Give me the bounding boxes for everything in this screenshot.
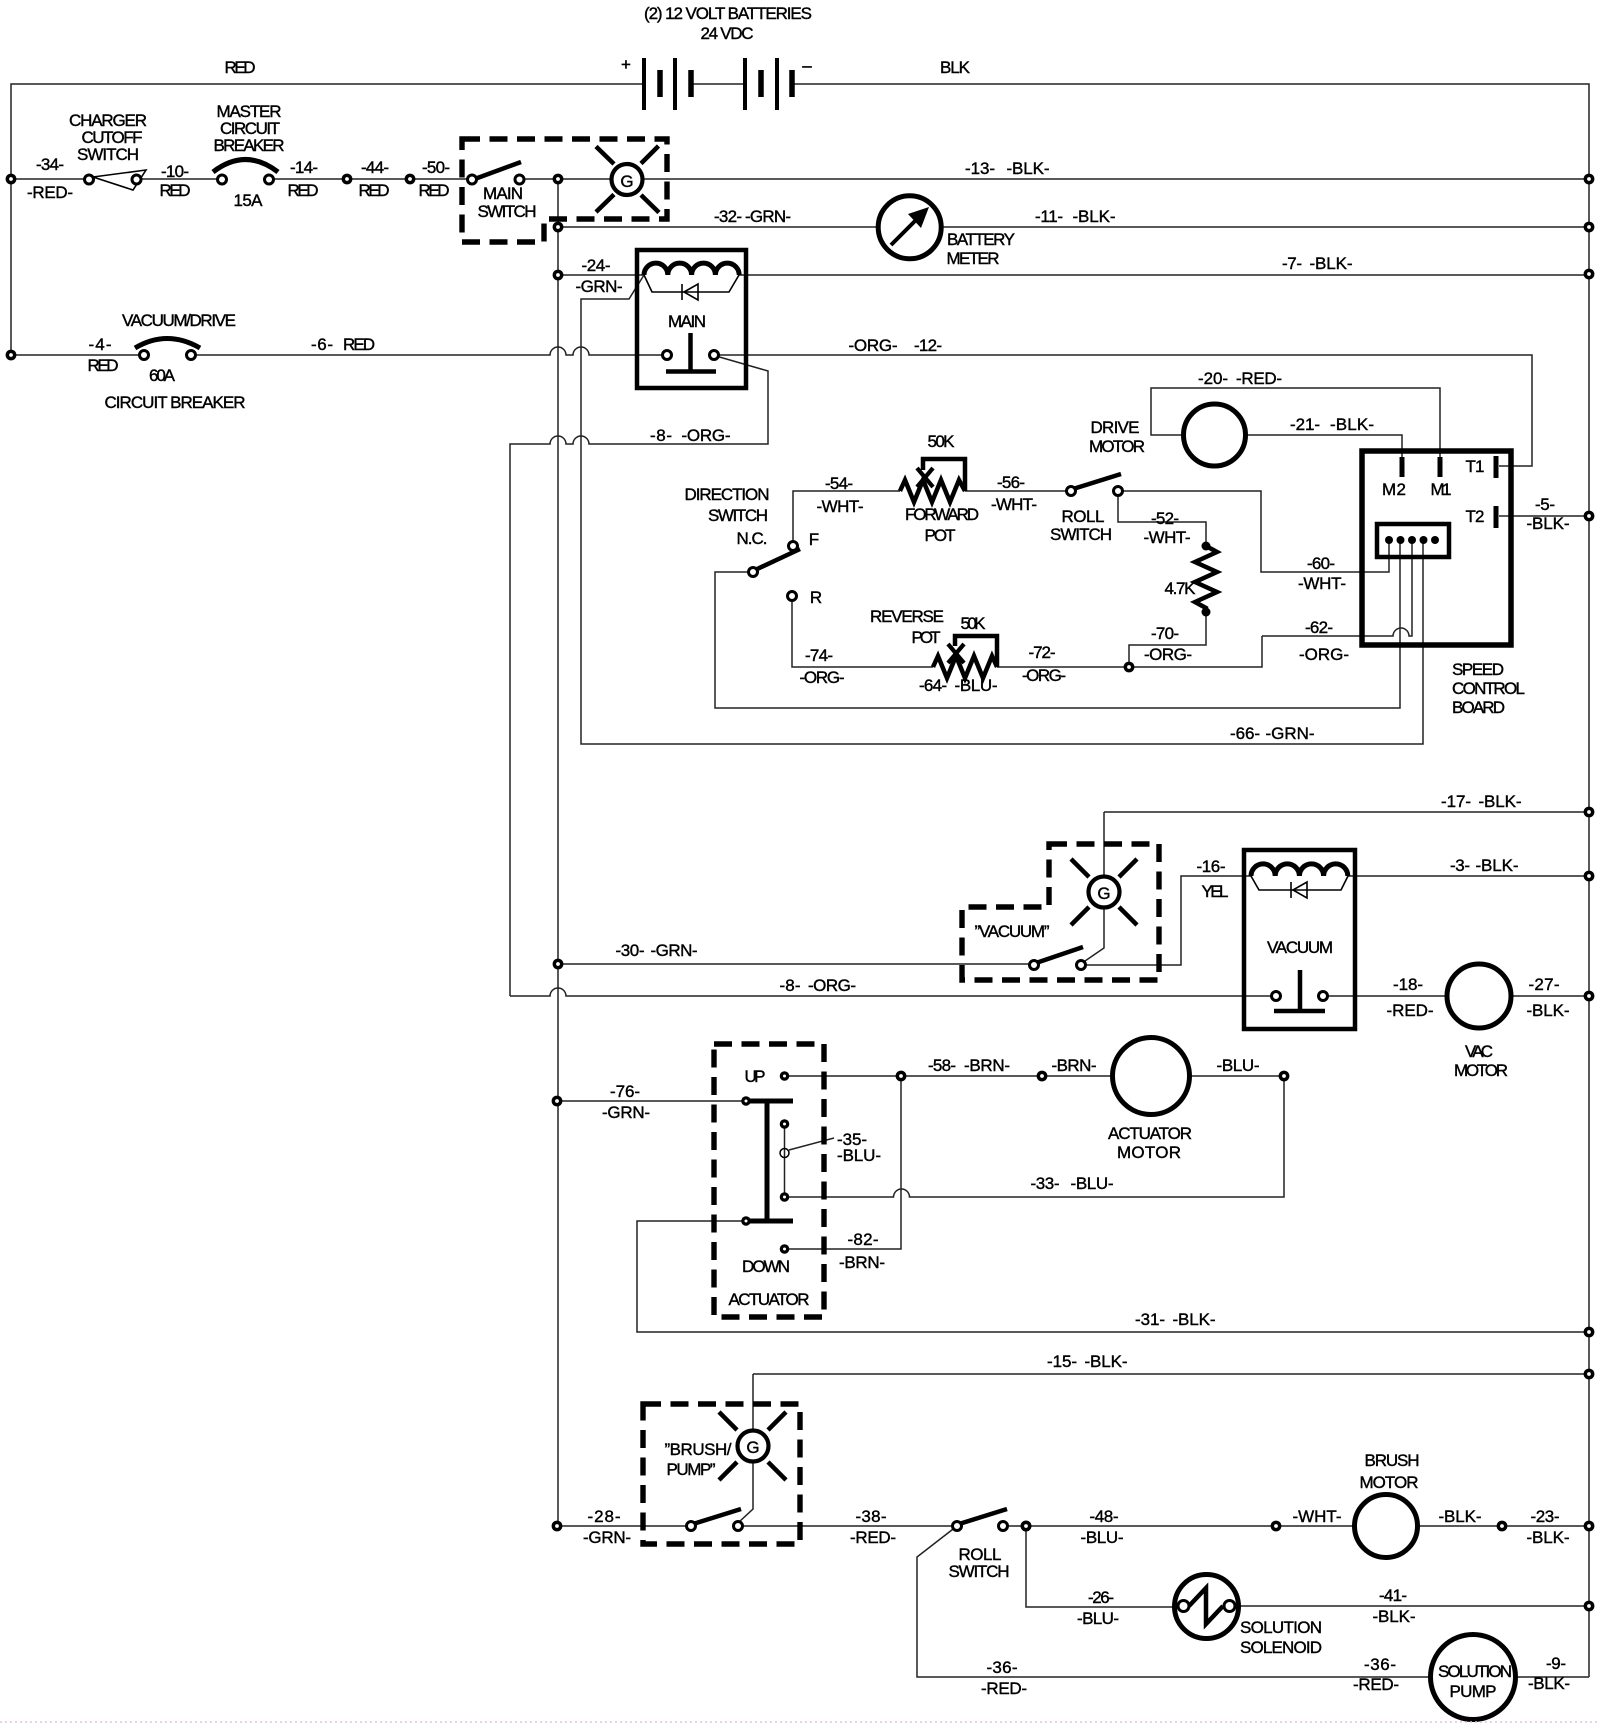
svg-text:SWITCH: SWITCH (478, 202, 537, 221)
svg-text:-41-: -41- (1379, 1586, 1407, 1605)
indicator lamp G main switch (596, 146, 659, 213)
svg-text:-5-: -5- (1535, 495, 1555, 514)
svg-text:-50-: -50- (422, 158, 450, 177)
svg-text:-56-: -56- (997, 473, 1025, 492)
roll switch S8 lever and contacts (953, 1509, 1008, 1531)
svg-text:-13-: -13- (965, 159, 995, 178)
svg-text:-BRN-: -BRN- (1052, 1056, 1097, 1075)
actuator switch dashed enclosure (714, 1044, 824, 1317)
wire -74- ORG from R contact down to reverse pot (792, 601, 933, 667)
node right bus -23- (1584, 1521, 1595, 1532)
wire -72- ORG reverse pot to corner x1262 (997, 636, 1262, 667)
actuator motor M3 (1113, 1038, 1190, 1115)
svg-text:N.C.: N.C. (737, 529, 768, 548)
svg-text:-58-: -58- (928, 1056, 956, 1075)
svg-text:M1: M1 (1431, 480, 1452, 499)
svg-text:G: G (1097, 884, 1110, 903)
svg-text:-BLK-: -BLK- (1528, 1674, 1570, 1693)
svg-text:VAC: VAC (1465, 1042, 1493, 1061)
direction switch S3 (749, 542, 801, 601)
main contactor coil (644, 263, 739, 275)
brush motor M4 (1355, 1495, 1418, 1558)
wire BLK: battery - to right rail, right bus down (792, 84, 1589, 1677)
svg-text:-ORG-: -ORG- (808, 976, 856, 995)
svg-text:-BLK-: -BLK- (1073, 207, 1116, 226)
svg-text:-BLK-: -BLK- (1007, 159, 1050, 178)
svg-text:BOARD: BOARD (1452, 698, 1505, 717)
wire -36- RED roll switch drop to solution pump (917, 1526, 1432, 1677)
vacuum switch S5 lever and contacts (1030, 947, 1086, 970)
node -70-/-72- junction (1124, 662, 1135, 673)
vacuum contactor contact symbol (1272, 970, 1328, 1011)
wire -5- BLK from T2 to right bus (1499, 515, 1589, 517)
svg-text:-BLK-: -BLK- (1373, 1607, 1416, 1626)
svg-text:RED: RED (288, 181, 319, 200)
svg-text:SPEED: SPEED (1452, 660, 1504, 679)
svg-text:-GRN-: -GRN- (576, 277, 623, 296)
main switch S2 dashed enclosure (462, 139, 667, 242)
wire -28- GRN to brush switch (557, 1525, 691, 1527)
terminal T2 (1494, 506, 1499, 528)
svg-text:-ORG-: -ORG- (1299, 645, 1349, 664)
svg-text:”BRUSH/: ”BRUSH/ (665, 1440, 732, 1459)
svg-text:-72-: -72- (1029, 643, 1056, 662)
svg-text:-16-: -16- (1197, 857, 1226, 876)
vacuum contactor K2 box (1244, 850, 1355, 1029)
wire -30- GRN to vacuum switch (558, 963, 1034, 965)
wire -18- RED vacuum contact to vac motor (1323, 995, 1447, 997)
svg-text:-15-: -15- (1047, 1352, 1077, 1371)
svg-text:-WHT-: -WHT- (1293, 1507, 1342, 1526)
node -BLK-/-23- junction (1497, 1521, 1508, 1532)
node -14-/-44- junction (342, 174, 353, 185)
wire brush G lamp drop to switch contact (739, 1461, 753, 1522)
main switch S2 lever and contacts (468, 162, 525, 184)
roll switch S4 (1067, 474, 1123, 496)
svg-text:-WHT-: -WHT- (991, 495, 1037, 514)
label speed control board (1452, 660, 1525, 717)
wire -21- BLK drive motor to M2 (1246, 435, 1402, 457)
svg-text:-BLU-: -BLU- (1081, 1528, 1124, 1547)
svg-text:-70-: -70- (1151, 624, 1179, 643)
svg-text:UP: UP (745, 1067, 766, 1086)
wire -11- BLK battery meter to right bus (941, 226, 1589, 228)
wire -38- RED brush switch to roll switch (738, 1525, 957, 1527)
node -28- tap (552, 1521, 563, 1532)
svg-text:-66-: -66- (1230, 724, 1260, 743)
svg-text:-48-: -48- (1090, 1507, 1119, 1526)
svg-text:-3-: -3- (1450, 856, 1470, 875)
svg-text:–: – (802, 56, 812, 75)
node right bus -13- (1584, 174, 1595, 185)
wire -35- label pointer (789, 1138, 834, 1150)
forward pot R1 50K (900, 459, 965, 502)
wire -20- RED drive motor loop to M1 (1151, 388, 1440, 457)
wire vertical bus x558 from main switch node down to -28- node (557, 179, 559, 1526)
svg-text:VACUUM: VACUUM (1267, 938, 1333, 957)
wire -15- BLK to right bus (753, 1373, 1589, 1375)
charger cutoff switch S1 (85, 170, 147, 190)
svg-text:POT: POT (912, 628, 941, 647)
svg-text:SOLENOID: SOLENOID (1240, 1638, 1322, 1657)
svg-text:PUMP: PUMP (1450, 1682, 1497, 1701)
node right bus -3- (1584, 871, 1595, 882)
svg-text:-18-: -18- (1393, 975, 1423, 994)
svg-text:-10-: -10- (161, 162, 189, 181)
svg-text:-60-: -60- (1307, 554, 1335, 573)
wire -3- BLK vacuum coil to right bus (1348, 875, 1589, 877)
svg-text:-WHT-: -WHT- (1144, 528, 1191, 547)
svg-text:MAIN: MAIN (483, 184, 523, 203)
wire -70- ORG resistor bottom to node on -72- (1129, 612, 1206, 667)
svg-text:-82-: -82- (848, 1230, 879, 1249)
svg-text:-GRN-: -GRN- (602, 1103, 650, 1122)
svg-text:-64-: -64- (919, 676, 947, 695)
svg-text:BLK: BLK (940, 58, 971, 77)
svg-text:(2) 12 VOLT BATTERIES: (2) 12 VOLT BATTERIES (644, 4, 812, 23)
svg-text:MAIN: MAIN (668, 312, 706, 331)
wire -9- BLK solution pump to right bus (1514, 1676, 1589, 1678)
svg-text:-14-: -14- (290, 158, 318, 177)
solution solenoid L1 (1175, 1575, 1239, 1639)
wire -34- RED row1 left (11, 178, 89, 180)
svg-text:SOLUTION: SOLUTION (1438, 1662, 1512, 1681)
svg-text:POT: POT (925, 526, 956, 545)
svg-text:-9-: -9- (1546, 1654, 1566, 1673)
node -24- tap (553, 270, 564, 281)
svg-text:RED: RED (419, 181, 450, 200)
svg-text:-6-: -6- (311, 335, 333, 354)
indicator lamp G vacuum (1071, 859, 1137, 925)
svg-text:-20-: -20- (1198, 369, 1228, 388)
svg-text:-74-: -74- (805, 646, 833, 665)
svg-text:-27-: -27- (1529, 975, 1560, 994)
svg-text:-BLK-: -BLK- (1527, 514, 1570, 533)
node -30- tap (553, 959, 564, 970)
svg-text:-36-: -36- (1364, 1655, 1396, 1674)
svg-text:RED: RED (160, 181, 191, 200)
svg-text:M2: M2 (1382, 480, 1406, 499)
svg-text:24 VDC: 24 VDC (701, 24, 754, 43)
node -32- tap (553, 222, 564, 233)
svg-text:T2: T2 (1466, 507, 1485, 526)
svg-text:SWITCH: SWITCH (77, 145, 139, 164)
svg-text:-32-: -32- (714, 207, 742, 226)
svg-text:-8-: -8- (780, 976, 801, 995)
wire between battery cells (691, 83, 745, 85)
svg-text:F: F (809, 530, 819, 549)
wire -41- BLK solenoid to right bus (1238, 1605, 1589, 1607)
svg-text:-23-: -23- (1531, 1507, 1560, 1526)
svg-text:-BLU-: -BLU- (1077, 1609, 1119, 1628)
svg-text:-WHT-: -WHT- (817, 497, 864, 516)
indicator lamp G brush/pump (719, 1412, 786, 1480)
wire -8- ORG upper: main contact diagonal down, left with hops, down to lower run (510, 356, 768, 996)
drive motor M1 (1184, 404, 1246, 466)
wire -52- WHT roll switch down to 4.7K resistor (1118, 494, 1206, 546)
svg-text:-WHT-: -WHT- (1298, 574, 1346, 593)
svg-text:SOLUTION: SOLUTION (1240, 1618, 1322, 1637)
svg-text:-36-: -36- (987, 1658, 1018, 1677)
vacuum contactor coil (1251, 864, 1348, 876)
svg-text:DIRECTION: DIRECTION (685, 485, 770, 504)
svg-text:60A: 60A (149, 366, 176, 385)
node main switch output (553, 174, 564, 185)
node -44-/-50- junction (405, 174, 416, 185)
solution pump M5 (1431, 1635, 1516, 1720)
wire -14- -44- -50- RED (269, 178, 472, 180)
node right bus -7- (1584, 269, 1595, 280)
svg-text:-62-: -62- (1305, 618, 1333, 637)
svg-text:-GRN-: -GRN- (583, 1528, 631, 1547)
node -76- tap (552, 1096, 563, 1107)
brush/pump switch dashed enclosure (643, 1404, 800, 1544)
svg-text:-BLK-: -BLK- (1173, 1310, 1216, 1329)
svg-text:DRIVE: DRIVE (1091, 418, 1140, 437)
wire -82- BRN down contact loop up to -58- node (785, 1076, 902, 1249)
wire -26- BLU down to solution solenoid (1026, 1526, 1175, 1607)
svg-text:-44-: -44- (361, 158, 389, 177)
svg-text:-8-: -8- (650, 426, 672, 445)
svg-text:-ORG-: -ORG- (1022, 666, 1066, 685)
svg-text:R: R (810, 588, 822, 607)
vacuum contactor suppression diode D2 (1251, 876, 1348, 898)
svg-text:-BRN-: -BRN- (839, 1253, 885, 1272)
svg-text:-ORG-: -ORG- (849, 336, 898, 355)
svg-text:RED: RED (225, 58, 256, 77)
svg-text:-26-: -26- (1088, 1588, 1114, 1607)
node right bus -41- (1584, 1601, 1595, 1612)
svg-text:-RED-: -RED- (850, 1528, 896, 1547)
svg-text:G: G (746, 1438, 759, 1457)
svg-text:-54-: -54- (825, 474, 853, 493)
wire top loop RED: battery + to left rail down to row 2 (11, 84, 644, 355)
node -58- tap (896, 1071, 907, 1082)
wire main coil branch down x581, -66- GRN run, up to board pin 4 (581, 275, 1423, 744)
svg-text:-30-: -30- (616, 941, 645, 960)
svg-text:-BLK-: -BLK- (1527, 1528, 1570, 1547)
svg-text:RED: RED (88, 356, 119, 375)
speed control board connector J1 (1377, 524, 1449, 557)
wire -24- GRN to main coil (558, 274, 644, 276)
svg-text:-RED-: -RED- (981, 1679, 1027, 1698)
svg-text:-76-: -76- (610, 1082, 640, 1101)
svg-text:SWITCH: SWITCH (1050, 525, 1112, 544)
svg-text:ACTUATOR: ACTUATOR (1108, 1124, 1192, 1143)
wire -8- ORG lower run to vacuum contactor with hop at x557 (510, 988, 1276, 996)
svg-text:BRUSH: BRUSH (1365, 1451, 1420, 1470)
battery meter M (878, 196, 941, 259)
resistor R2 4.7K (1195, 542, 1217, 617)
actuator switch S6 arm (741, 1071, 793, 1254)
svg-text:-GRN-: -GRN- (1266, 724, 1315, 743)
svg-text:PUMP”: PUMP” (667, 1460, 716, 1479)
battery B1 (2) 12 volt batteries (644, 58, 792, 110)
svg-text:-ORG-: -ORG- (800, 668, 845, 687)
svg-text:-21-: -21- (1290, 415, 1320, 434)
wire -62- ORG into board pin 3 with hop over pin2 line (1262, 540, 1412, 636)
wire -32- GRN to battery meter (558, 226, 878, 228)
svg-text:-BLK-: -BLK- (1439, 1507, 1482, 1526)
node left rail row2 (6, 350, 17, 361)
svg-text:BATTERY: BATTERY (947, 230, 1015, 249)
terminal T1 (1494, 456, 1499, 478)
svg-text:-ORG-: -ORG- (1144, 645, 1192, 664)
vac motor M2 (1447, 964, 1511, 1028)
svg-text:-28-: -28- (588, 1507, 621, 1526)
wire -BLK- -23- brush motor to right bus (1417, 1525, 1589, 1527)
svg-text:-BLU-: -BLU- (1217, 1056, 1260, 1075)
node right bus -15- (1584, 1369, 1595, 1380)
node right bus -5- (1584, 511, 1595, 522)
svg-text:FORWARD: FORWARD (905, 505, 979, 524)
wire -13- BLK through G lamp to right bus (520, 178, 1590, 180)
node -58-/-BRN- junction (1037, 1071, 1048, 1082)
svg-text:-38-: -38- (856, 1507, 887, 1526)
svg-text:-BLU-: -BLU- (955, 676, 998, 695)
svg-text:-7-: -7- (1282, 254, 1302, 273)
wire vacuum G lamp drop to switch contact (1085, 812, 1104, 961)
terminal M1 (1438, 457, 1443, 477)
terminal M2 (1400, 457, 1405, 477)
wire -31- BLK actuator arm low to right bus (637, 1221, 1589, 1332)
svg-text:+: + (621, 55, 631, 74)
svg-text:VACUUM/DRIVE: VACUUM/DRIVE (122, 311, 236, 330)
svg-text:50K: 50K (961, 614, 987, 633)
wire roll switch to -60- WHT into board pin 1 (1118, 491, 1389, 572)
main contactor K1 box (637, 250, 746, 388)
main contactor contact symbol (663, 333, 719, 372)
node -48-/-WHT- junction (1271, 1521, 1282, 1532)
svg-text:-BLK-: -BLK- (1527, 1001, 1570, 1020)
svg-text:-BRN-: -BRN- (964, 1056, 1010, 1075)
svg-text:DOWN: DOWN (742, 1257, 790, 1276)
wire -27- BLK vac motor to right bus (1511, 995, 1589, 997)
svg-text:”VACUUM”: ”VACUUM” (975, 922, 1050, 941)
svg-text:METER: METER (947, 249, 1000, 268)
svg-text:G: G (620, 172, 633, 191)
wire -16- YEL vacuum switch to vacuum coil (1081, 876, 1251, 965)
svg-text:MOTOR: MOTOR (1360, 1473, 1419, 1492)
wire -35- BLU between actuator contacts (784, 1128, 786, 1193)
wire -10- RED (137, 178, 223, 180)
svg-text:ROLL: ROLL (1062, 507, 1105, 526)
svg-text:SWITCH: SWITCH (708, 506, 768, 525)
speed control board U1 (1362, 451, 1511, 645)
node right bus -17- (1584, 807, 1595, 818)
main contactor suppression diode D1 (644, 275, 739, 300)
wire -76- GRN to actuator arm (557, 1100, 746, 1102)
svg-text:CONTROL: CONTROL (1452, 679, 1525, 698)
page edge dotted pink line (0, 1721, 1600, 1723)
svg-text:-GRN-: -GRN- (745, 207, 791, 226)
node -26- tap (1021, 1521, 1032, 1532)
svg-text:-ORG-: -ORG- (682, 426, 731, 445)
svg-text:-33-: -33- (1031, 1174, 1060, 1193)
svg-text:-RED-: -RED- (27, 183, 73, 202)
svg-text:-17-: -17- (1441, 792, 1471, 811)
node -BLU-/-33- corner (1279, 1071, 1290, 1082)
vacuum/drive circuit breaker CB2 60A (135, 339, 200, 360)
svg-text:-BLU-: -BLU- (1071, 1174, 1114, 1193)
node right bus -31- (1584, 1327, 1595, 1338)
svg-text:MOTOR: MOTOR (1117, 1143, 1181, 1162)
svg-text:CIRCUIT BREAKER: CIRCUIT BREAKER (105, 393, 246, 412)
brush/pump switch S7 lever and contacts (687, 1509, 743, 1531)
svg-text:T1: T1 (1466, 457, 1485, 476)
svg-text:ACTUATOR: ACTUATOR (729, 1290, 810, 1309)
wire -33- BLU back to actuator contact with hop at x901 (785, 1076, 1285, 1197)
svg-text:-11-: -11- (1035, 207, 1063, 226)
svg-text:-GRN-: -GRN- (651, 941, 698, 960)
wire -48- BLU -WHT- to brush motor (1003, 1525, 1355, 1527)
wire direction switch pivot loop to board pin 2 (715, 540, 1400, 708)
svg-text:-4-: -4- (89, 335, 112, 354)
svg-text:-BLK-: -BLK- (1085, 1352, 1128, 1371)
wire -12- ORG from main contact right to T1 of speed board (714, 355, 1532, 466)
node roll switch output (1021, 1521, 1032, 1532)
svg-text:-RED-: -RED- (1236, 369, 1282, 388)
svg-text:MOTOR: MOTOR (1089, 437, 1145, 456)
svg-text:15A: 15A (234, 191, 264, 210)
svg-text:BREAKER: BREAKER (214, 136, 285, 155)
svg-text:50K: 50K (928, 432, 956, 451)
svg-text:-BLK-: -BLK- (1479, 792, 1522, 811)
wire -58- BRN actuator UP contact to actuator motor (785, 1075, 1114, 1077)
svg-text:-24-: -24- (582, 256, 611, 275)
svg-text:RED: RED (359, 181, 390, 200)
node left rail row1 (6, 174, 17, 185)
svg-text:-BLK-: -BLK- (1310, 254, 1353, 273)
svg-text:-34-: -34- (36, 155, 64, 174)
svg-text:-BLU-: -BLU- (837, 1146, 881, 1165)
connector J1 pins (1385, 536, 1439, 544)
node right bus -11- (1584, 222, 1595, 233)
node right bus -27- (1584, 991, 1595, 1002)
svg-text:-RED-: -RED- (1387, 1001, 1434, 1020)
svg-text:-52-: -52- (1151, 509, 1179, 528)
wire -6- RED with hops over verticals x557 x581 (191, 347, 667, 355)
svg-text:REVERSE: REVERSE (870, 607, 944, 626)
svg-text:-BLK-: -BLK- (1330, 415, 1374, 434)
wire -54- WHT from F contact to forward pot (793, 491, 900, 541)
wire -7- BLK main coil to right bus (739, 274, 1589, 276)
svg-text:-31-: -31- (1135, 1310, 1165, 1329)
wire -17- BLK to right bus (1104, 811, 1589, 813)
svg-text:YEL: YEL (1202, 882, 1229, 901)
svg-text:SWITCH: SWITCH (949, 1562, 1010, 1581)
svg-text:MOTOR: MOTOR (1454, 1061, 1508, 1080)
wire -56- WHT forward pot to roll switch (965, 490, 1071, 492)
svg-text:RED: RED (343, 335, 375, 354)
master circuit breaker CB1 15A (213, 160, 278, 185)
svg-text:-BLK-: -BLK- (1476, 856, 1519, 875)
wire -BLU- actuator motor to corner node (1189, 1075, 1284, 1077)
svg-text:-RED-: -RED- (1353, 1675, 1399, 1694)
wire -15- drop to brush G lamp (752, 1374, 754, 1430)
svg-text:4.7K: 4.7K (1165, 579, 1197, 598)
vacuum switch dashed enclosure (962, 844, 1159, 980)
reverse pot R3 50K (933, 636, 997, 678)
svg-text:-12-: -12- (914, 336, 942, 355)
